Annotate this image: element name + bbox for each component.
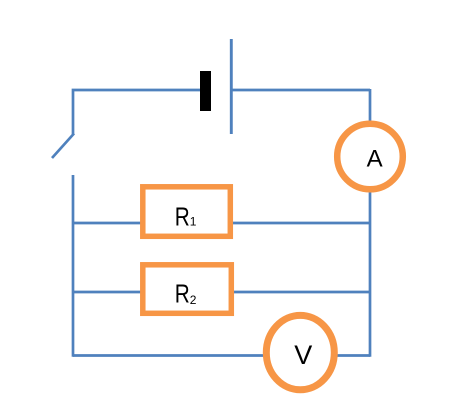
resistor R1: [143, 187, 231, 237]
wire R2 row: [73, 291, 370, 294]
resistor R2: [143, 265, 232, 314]
wire right vertical: [369, 89, 372, 121]
svg-text:A: A: [367, 145, 383, 172]
svg-text:V: V: [294, 340, 312, 370]
wire right vertical lower: [369, 191, 372, 357]
wire R1 row: [73, 222, 370, 225]
voltmeter V1: [266, 315, 334, 389]
wire left vertical: [72, 175, 75, 357]
battery B1 long plate: [230, 39, 233, 134]
switch S1 blade: [52, 134, 74, 159]
wire bottom row: [73, 354, 370, 357]
wire top-right horizontal: [231, 89, 370, 92]
battery B1 short plate: [200, 71, 211, 111]
wire top-left horizontal: [73, 90, 205, 134]
ammeter A1: [337, 124, 403, 190]
